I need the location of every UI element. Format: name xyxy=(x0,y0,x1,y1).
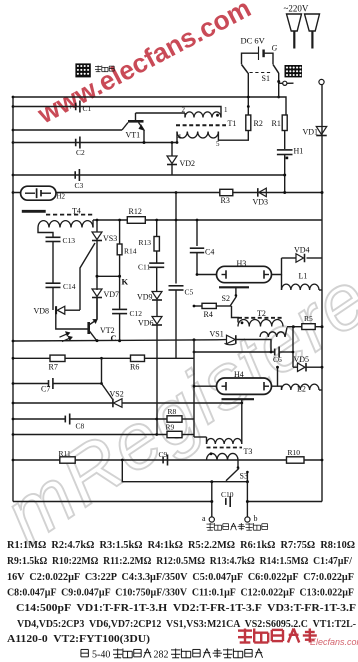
diode VD1 xyxy=(316,127,327,135)
svg-text:R3: R3 xyxy=(221,196,230,205)
wire plate H4 down xyxy=(241,399,243,403)
transistor VT1 xyxy=(128,120,144,123)
rail VS2 xyxy=(13,402,113,404)
svg-text:C9: C9 xyxy=(159,450,168,459)
diode VD8 xyxy=(55,306,57,314)
resistor R6 xyxy=(131,355,145,361)
svg-text:C5: C5 xyxy=(185,288,194,297)
insulating block icon 2 xyxy=(285,65,303,77)
terminal circle S1 xyxy=(283,81,287,85)
svg-text:DC 6V: DC 6V xyxy=(241,36,266,46)
capacitor C4 xyxy=(190,247,204,249)
wire V1 vertical xyxy=(193,340,195,437)
svg-text:1: 1 xyxy=(224,106,228,114)
mains plug xyxy=(287,14,302,31)
wire H3 right node xyxy=(272,258,282,275)
wire T1 pin4 down xyxy=(176,132,178,143)
inductor L1 xyxy=(281,275,283,291)
svg-text:C10: C10 xyxy=(221,490,234,499)
svg-text:R2: R2 xyxy=(254,119,263,128)
svg-text:R12: R12 xyxy=(129,207,142,216)
transformer T3 secondary xyxy=(207,453,239,460)
wire VT2 emitter up xyxy=(96,298,98,320)
transformer T1 primary xyxy=(185,112,221,118)
capacitor C14 xyxy=(46,282,61,284)
svg-text:S2: S2 xyxy=(222,294,230,303)
svg-text:R1: R1 xyxy=(272,119,281,128)
wire C14 to VD8 xyxy=(52,287,54,310)
wire S1 right pole down xyxy=(278,73,280,97)
wire VS1 to C6 xyxy=(236,340,271,353)
diode VD2 xyxy=(171,143,173,157)
wire plate to S2 xyxy=(235,287,237,294)
svg-text:VD1: VD1 xyxy=(303,128,319,137)
svg-text:VD7: VD7 xyxy=(104,290,120,299)
transformer T3 primary xyxy=(194,436,207,438)
wire second rail C1 xyxy=(13,107,221,118)
svg-text:a: a xyxy=(202,514,206,523)
wire C13 to C14 xyxy=(52,242,54,284)
wire H4 left xyxy=(194,385,217,387)
svg-text:2: 2 xyxy=(182,106,186,114)
wire C5 vertical xyxy=(175,193,177,284)
resistor R10 xyxy=(287,457,305,463)
inductor L2 xyxy=(278,386,282,390)
diode VD9 xyxy=(152,292,162,300)
switch S3 xyxy=(237,460,239,467)
caption figure number xyxy=(81,648,88,650)
terminal a wire xyxy=(211,482,213,517)
capacitor C1 xyxy=(75,103,77,111)
transformer T4 primary xyxy=(38,221,93,228)
svg-text:H4: H4 xyxy=(234,370,244,379)
terminal circle right bus xyxy=(319,79,324,84)
svg-text:H2: H2 xyxy=(57,193,66,201)
node K wire xyxy=(97,275,120,277)
svg-text:C8: C8 xyxy=(76,422,85,431)
resistor rail R7 R6 xyxy=(13,357,194,359)
svg-text:C12: C12 xyxy=(130,309,143,318)
transformer T4 core xyxy=(46,214,93,216)
svg-text:~220V: ~220V xyxy=(284,4,309,14)
svg-text:VS1: VS1 xyxy=(210,330,224,339)
svg-text:C2: C2 xyxy=(76,148,85,157)
svg-text:VD4,VD5:2CP3 VD6,VD7:2CP12 V: VD4,VD5:2CP3 VD6,VD7:2CP12 VS1,VS3:M21CA… xyxy=(17,618,356,630)
capacitor C6 xyxy=(194,351,274,353)
svg-text:VD4: VD4 xyxy=(294,246,310,255)
svg-text:C14: C14 xyxy=(63,282,76,291)
wire VT1 base rail xyxy=(13,129,122,131)
svg-text:R11: R11 xyxy=(59,449,71,458)
trigger plate H3 xyxy=(219,286,249,288)
wire VS3 top xyxy=(96,220,98,232)
node S1 bottom xyxy=(277,80,280,83)
wire H2 rail xyxy=(13,192,322,194)
capacitor C12 xyxy=(112,308,127,310)
wire V2 vertical xyxy=(292,327,294,368)
svg-text:R8: R8 xyxy=(168,407,177,416)
transformer T2 primary xyxy=(238,319,283,326)
svg-text:T2: T2 xyxy=(257,309,266,318)
wire S1 left pole down xyxy=(247,73,249,115)
svg-text:C4: C4 xyxy=(205,248,214,257)
svg-text:R10: R10 xyxy=(288,448,301,457)
transformer T3 core xyxy=(207,447,243,449)
resistor R14 xyxy=(117,244,122,255)
wire R1 to H1 xyxy=(284,131,286,150)
terminal b wire xyxy=(246,482,248,517)
battery G xyxy=(258,47,260,61)
svg-text:G: G xyxy=(272,44,278,53)
trigger plate H4 xyxy=(222,398,255,400)
resistor R5 wire xyxy=(287,326,302,328)
svg-text:L2: L2 xyxy=(297,385,306,394)
svg-text:C: C xyxy=(111,333,117,343)
diode VD6 xyxy=(152,317,162,325)
svg-text:C6: C6 xyxy=(273,355,282,364)
svg-text:R9:1.5kΩ R10:22MΩ R11:2.2MΩ: R9:1.5kΩ R10:22MΩ R11:2.2MΩ R12:0.5MΩ R1… xyxy=(7,555,353,567)
svg-text:T4: T4 xyxy=(72,207,81,216)
flash tube H3 xyxy=(217,266,272,282)
svg-text:A1120-0 VT2:FYT100(3DU): A1120-0 VT2:FYT100(3DU) xyxy=(7,633,150,645)
svg-text:C1: C1 xyxy=(83,104,92,113)
terminal b xyxy=(245,517,250,522)
capacitor C9 xyxy=(162,457,164,464)
wire C2 rail xyxy=(13,142,177,144)
svg-text:R5: R5 xyxy=(304,314,313,323)
diode VD3 xyxy=(259,188,267,197)
transformer T1 core xyxy=(176,124,226,126)
wire C4 vertical xyxy=(196,220,198,246)
resistor R2 xyxy=(246,115,251,131)
capacitor H1 xyxy=(277,149,293,151)
svg-text:R6: R6 xyxy=(130,363,139,372)
label block 1 xyxy=(95,65,101,67)
wire VT1 collector to T1 pin2 xyxy=(136,112,186,114)
node VT1 emitter rail xyxy=(143,141,146,144)
thyristor VS2 xyxy=(112,399,114,408)
wire T3 top right xyxy=(241,403,243,437)
svg-text:VD2: VD2 xyxy=(180,159,196,168)
thyristor VS2 gate xyxy=(102,384,113,400)
wire H4 right node xyxy=(272,367,278,386)
insulating block icon 1 xyxy=(75,63,90,77)
wire T4 right up to rail xyxy=(92,220,94,228)
resistor R9 xyxy=(167,431,182,437)
transformer T1 secondary xyxy=(177,132,218,138)
resistor R12 xyxy=(127,217,145,224)
wire R11 rail xyxy=(13,459,322,461)
phototransistor VT2 xyxy=(87,322,90,334)
svg-text:C3: C3 xyxy=(75,181,84,190)
svg-text:L1: L1 xyxy=(299,272,308,281)
capacitor C11 xyxy=(156,251,158,263)
wire T4 left to C13 xyxy=(38,228,53,238)
svg-text:5-40: 5-40 xyxy=(92,650,110,661)
resistor R13 xyxy=(154,237,159,252)
svg-text:C7: C7 xyxy=(41,385,50,394)
flash tube H4 xyxy=(217,378,272,394)
svg-text:VD8: VD8 xyxy=(34,307,50,316)
wire battery left to switch xyxy=(242,53,253,64)
diode VD7 xyxy=(92,289,102,297)
capacitor C8 rail xyxy=(13,418,65,420)
wire VT2 collector rail xyxy=(13,340,217,341)
svg-text:T3: T3 xyxy=(244,447,253,456)
svg-text:5: 5 xyxy=(216,140,220,148)
thyristor VS3 xyxy=(92,232,102,240)
svg-text:VS2: VS2 xyxy=(110,390,124,399)
wire H1 down xyxy=(284,155,286,193)
resistor R8 xyxy=(167,416,182,422)
svg-text:C8:0.047µF C9:0.047µF C10:75: C8:0.047µF C9:0.047µF C10:750µF/330V C11… xyxy=(7,587,354,599)
svg-text:VD5: VD5 xyxy=(294,355,310,364)
capacitor C2 xyxy=(75,139,77,147)
wire left bus xyxy=(12,97,14,502)
wire VT1 emitter down xyxy=(143,130,145,143)
capacitor C8 xyxy=(64,416,66,423)
node H2 rail right bus xyxy=(321,191,324,194)
transformer T2 secondary xyxy=(260,332,285,337)
svg-text:C11: C11 xyxy=(138,263,150,272)
capacitor C10 xyxy=(225,498,227,505)
red logo xyxy=(238,629,252,631)
resistor R1 xyxy=(282,115,287,131)
diode VD4 xyxy=(282,257,297,259)
wire VS2 anode xyxy=(101,358,103,383)
svg-text:T1: T1 xyxy=(228,119,237,128)
wire top rail xyxy=(13,97,286,115)
switch S1 xyxy=(242,65,249,74)
switch S2 xyxy=(235,294,238,297)
svg-text:+: + xyxy=(68,103,73,112)
photo arrows xyxy=(60,333,70,337)
wire battery right to switch xyxy=(265,53,273,64)
svg-text:VD9: VD9 xyxy=(137,293,153,302)
wire VD8 node to VT2 base xyxy=(56,310,88,329)
svg-text:R4: R4 xyxy=(204,310,213,319)
capacitor C13 xyxy=(46,236,61,238)
transformer T4 secondary bar xyxy=(22,210,46,213)
capacitor C5 xyxy=(169,285,184,287)
svg-text:16V C2:0.022µF C3:22P C4:3.: 16V C2:0.022µF C3:22P C4:3.3µF/350V C5:0… xyxy=(7,571,354,583)
flash indicator tube H2 xyxy=(21,186,56,200)
resistor R3 xyxy=(220,189,233,195)
terminal a xyxy=(209,517,214,522)
svg-text:K: K xyxy=(122,277,129,287)
svg-text:S3: S3 xyxy=(240,472,248,481)
capacitor C7 wire xyxy=(13,383,48,385)
svg-text:R1:1MΩ R2:4.7kΩ R3:1.5kΩ R4: R1:1MΩ R2:4.7kΩ R3:1.5kΩ R4:1kΩ R5:2.2MΩ… xyxy=(7,539,355,551)
diode VD5 xyxy=(293,366,298,368)
svg-text:R14: R14 xyxy=(124,247,137,256)
thyristor VS3 gate xyxy=(80,243,95,310)
capacitor C7 xyxy=(48,380,50,387)
svg-text:VD3: VD3 xyxy=(253,198,269,207)
svg-text:R13: R13 xyxy=(139,238,152,247)
svg-text:S1: S1 xyxy=(262,74,270,83)
wire H3 left xyxy=(197,274,217,276)
svg-text:Elecfans.com: Elecfans.com xyxy=(310,637,358,647)
wire right bus xyxy=(321,85,323,502)
transformer T2 core xyxy=(238,317,283,319)
wire C3 rail xyxy=(13,174,285,176)
svg-text:H1: H1 xyxy=(294,147,304,156)
svg-text:b: b xyxy=(254,514,258,523)
resistor R11 xyxy=(60,457,75,463)
svg-text:VS3: VS3 xyxy=(103,234,117,243)
resistor R7 xyxy=(50,355,65,361)
svg-text:R9: R9 xyxy=(166,423,175,432)
svg-text:C14:500pF VD1:T-FR-1T-3.H VD: C14:500pF VD1:T-FR-1T-3.H VD2:T-FR-1T-3.… xyxy=(16,602,356,614)
label sync connection xyxy=(207,523,214,525)
svg-text:C13: C13 xyxy=(63,236,76,245)
wire main HV rail xyxy=(93,219,322,221)
wire sync rail xyxy=(122,460,247,482)
svg-text:VT1: VT1 xyxy=(126,131,141,140)
caption text xyxy=(113,649,122,651)
resistor R4 xyxy=(194,305,202,307)
svg-text:R7: R7 xyxy=(49,363,58,372)
thyristor VS1 xyxy=(217,339,227,341)
svg-text:VD6: VD6 xyxy=(138,319,154,328)
wire T1 pin5 bracket to R2 xyxy=(218,131,248,141)
resistor R9 rail xyxy=(13,434,167,436)
wire bottom rail xyxy=(13,501,322,503)
capacitor C3 xyxy=(74,171,76,179)
svg-text:H3: H3 xyxy=(237,259,247,268)
svg-text:282: 282 xyxy=(154,650,169,661)
svg-text:4: 4 xyxy=(178,133,182,141)
